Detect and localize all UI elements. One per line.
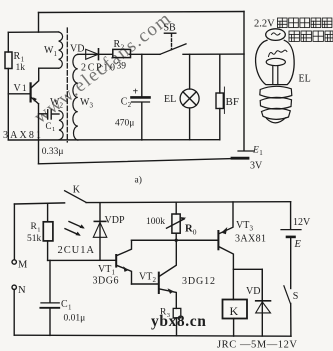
wire base line VT2 [132,283,159,285]
photodiode VDP [93,221,107,237]
label 0.01u [64,313,86,323]
label K contact [73,185,81,196]
svg-text:1: 1 [68,303,72,311]
svg-text:V: V [14,83,22,94]
wire right rail [243,12,245,151]
svg-text:0.33μ: 0.33μ [42,147,64,157]
wire collector bus y240 [132,239,218,241]
label S [293,291,299,302]
watermark ybx8.cn [151,313,206,330]
wire left rail [13,204,15,260]
wire top rail left segment [14,203,64,204]
diode VD bottom [256,269,271,336]
svg-text:a): a) [135,175,142,186]
wire common rail y140 [8,139,220,141]
svg-text:VT: VT [236,220,249,231]
diode VD 2CP10 [86,49,99,60]
wire C1 top lead [49,260,51,302]
label R2 [114,39,125,52]
earphone BF [216,54,224,140]
svg-text:1: 1 [52,126,55,133]
label VDP [105,215,125,226]
svg-text:VDP: VDP [105,215,125,226]
transformer winding W3 [73,55,78,141]
wire top rail right segment [86,201,291,204]
light arrow 1 [69,222,85,229]
svg-text:VT: VT [139,272,152,283]
bulb screw band2 [260,97,291,109]
svg-text:0.01μ: 0.01μ [64,313,86,323]
wire S to bottom rail [290,304,292,337]
bulb screw band1 [260,86,292,98]
svg-text:2CU1A: 2CU1A [58,245,95,256]
potentiometer R0 [167,214,187,240]
terminal M [12,260,16,264]
relay contact K [65,191,87,203]
svg-text:3AX81: 3AX81 [235,233,266,244]
svg-text:2: 2 [121,43,125,51]
label 2CP10 [81,62,115,73]
svg-text:3: 3 [250,224,254,232]
wire W3 top to diode [78,53,113,55]
wire N to bottom rail [13,290,15,336]
svg-text:51k: 51k [27,234,42,244]
wire left corner drop [38,13,40,33]
label VT3 [236,220,254,232]
switch S [284,286,291,304]
relay coil K [223,300,248,319]
wire C2 top lead [141,54,143,96]
svg-text:K: K [230,304,239,318]
caption hanzi line1 [278,18,332,28]
svg-text:W: W [50,97,60,108]
svg-text:E: E [252,146,259,156]
svg-text:1: 1 [54,50,58,58]
svg-text:M: M [18,260,28,271]
wire negative rail [39,159,233,164]
bulb filament disc [266,58,285,65]
svg-text:3DG6: 3DG6 [93,276,119,287]
junction dot R0 [175,239,178,242]
wire C1 to W2 [51,113,59,115]
label N [18,285,26,296]
bulb tip squiggle [272,33,281,35]
bulb tip ellipse [266,29,286,41]
resistor R2 [113,49,131,57]
wire VDP top lead [99,203,101,260]
label 39 [117,62,127,72]
wire R1 top lead [47,204,49,222]
capacitor C1 top [48,110,52,119]
label K coil [230,304,239,318]
svg-text:12V: 12V [293,217,311,228]
wire base of V1 [8,93,30,95]
label 3AX81 bottom [235,233,266,244]
svg-text:ybx8.cn: ybx8.cn [151,313,206,330]
wire R1 bottom lead [47,241,49,261]
svg-text:39: 39 [117,62,127,72]
svg-text:VT: VT [98,264,111,275]
label R3 [160,308,170,319]
svg-text:2: 2 [128,101,132,109]
svg-text:R: R [185,223,193,234]
label 3V [250,160,263,171]
caption hanzi line2 [289,31,333,41]
svg-text:BF: BF [226,96,239,108]
wire bottom rail [14,335,291,336]
svg-text:1: 1 [37,226,40,233]
svg-text:0: 0 [193,228,197,237]
wire R2 to SB [130,53,161,55]
svg-text:+: + [133,86,139,97]
resistor R1 [5,52,12,69]
label 2CU1A [58,245,95,256]
svg-text:3V: 3V [250,160,263,171]
switch SB [160,33,186,54]
svg-text:2.2V: 2.2V [254,19,275,30]
battery E 12V [281,230,301,289]
svg-text:S: S [293,291,299,302]
wire emitter to C1 [39,113,48,115]
label VT1 [98,264,116,276]
label R0 [185,223,197,236]
wire emitter drop [38,104,40,164]
label R1 bottom [31,222,41,233]
label 51k [27,234,42,244]
transistor VT3 [218,202,233,300]
wire R0 top lead [175,202,177,214]
svg-text:R: R [114,39,121,50]
label W3 [80,97,94,110]
svg-text:K: K [73,185,81,196]
label 3DG6 [93,276,119,287]
label plus C2 [133,86,139,97]
svg-text:W: W [80,97,90,108]
resistor R3 [173,308,181,317]
label BF [226,96,239,108]
svg-text:VD: VD [246,286,260,297]
wire left rail lower [7,69,9,140]
svg-text:N: N [18,285,26,296]
label 12V [293,217,311,228]
label V1 [14,83,27,94]
transistor V1 [31,68,39,104]
svg-text:1: 1 [259,149,263,157]
svg-text:C: C [61,299,68,310]
resistor R1 51k [43,222,53,241]
wire R1/W1 top link [8,31,58,33]
label VD bottom [246,286,260,297]
capacitor C1 bottom [40,303,59,308]
transformer winding W2 [59,111,63,140]
svg-text:100k: 100k [146,217,165,227]
transistor VT2 [159,240,177,308]
wire SB to right rail [183,53,244,55]
svg-text:EL: EL [164,94,176,105]
wire left rail upper [7,32,9,52]
label C1 top [46,121,56,133]
label 3AX81 [3,130,41,141]
label C1 bottom [61,299,72,312]
transformer winding W1 [59,32,63,68]
transformer core [66,28,68,142]
label E1 [252,146,263,157]
svg-text:2: 2 [60,101,64,109]
svg-text:2: 2 [153,276,157,284]
label 2.2V caption line1 [254,19,275,30]
wire R3 bottom lead [176,318,178,336]
label R1 [14,51,26,73]
wire K bottom lead [233,319,235,337]
label 3DG12 [182,276,215,287]
wire right rail top [290,202,292,229]
svg-text:R: R [14,51,21,62]
label a) [135,175,142,186]
transistor VT1 [116,240,131,284]
label 470u [115,118,134,128]
terminal N [12,285,16,289]
wire VD branch [233,269,262,300]
label SB [164,23,177,34]
label E battery [294,239,302,250]
svg-text:3DG12: 3DG12 [182,276,215,287]
label 100k [146,217,165,227]
battery E1 [232,151,254,158]
svg-text:E: E [294,239,302,250]
wire base line VT1 [48,259,116,261]
wire collector link [39,67,59,69]
svg-text:EL: EL [299,74,311,85]
label C2 [121,97,132,110]
svg-text:VD: VD [70,44,84,55]
wire C1 bottom lead [49,308,51,335]
svg-text:C: C [46,121,52,131]
label VD [70,44,84,55]
lamp EL [180,54,199,140]
label M [18,260,28,271]
light arrow 2 [65,229,81,236]
svg-text:W: W [44,45,54,56]
watermark www.elecfans.com [30,8,176,128]
capacitor C2 [132,97,150,140]
svg-text:470μ: 470μ [115,118,134,128]
svg-text:JRC —5M—12V: JRC —5M—12V [217,339,297,350]
wire top rail [39,12,245,13]
bulb filament squiggle [269,50,287,56]
label EL [164,94,176,105]
svg-text:SB: SB [164,23,177,34]
bulb stem [273,66,278,84]
svg-text:1: 1 [22,83,27,93]
label W1 [44,45,58,58]
label EL bulb [299,74,311,85]
label JRC relay model [217,339,297,350]
bulb envelope [256,40,295,84]
bulb screw band3 [262,108,291,119]
label VT2 [139,272,157,284]
label W2 [50,97,64,110]
bulb bottom cup [267,118,286,123]
svg-text:3: 3 [90,102,94,110]
svg-text:1k: 1k [16,63,26,73]
label 0.33u [42,147,64,157]
